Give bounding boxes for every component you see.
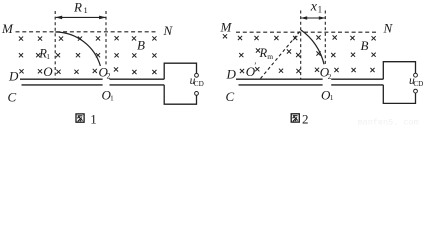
connector wire top fig1 [164, 63, 196, 79]
svg-text:1: 1 [46, 52, 50, 61]
dimension arrow R1 (fig1) [55, 16, 106, 20]
magnetic field crosses fig1 row3 [19, 67, 156, 74]
svg-text:D: D [226, 67, 237, 82]
dashed boundary line MN (fig1) [16, 31, 158, 33]
magnetic field crosses fig1 row2 [19, 53, 157, 57]
rod tip trajectory arc fig2 [301, 30, 324, 64]
connector wire top fig2 [383, 62, 415, 79]
svg-text:x: x [310, 0, 318, 15]
svg-text:R: R [259, 46, 268, 60]
svg-text:C: C [8, 90, 17, 105]
svg-text:′: ′ [254, 61, 256, 71]
magnetic field crosses fig2 row2 [239, 48, 376, 57]
connector wire bottom fig2 [383, 85, 415, 104]
dimension arrow x1 (fig2) [301, 16, 326, 19]
magnetic field crosses fig1 row1 [19, 36, 157, 41]
svg-text:O: O [43, 64, 53, 79]
terminal circle bottom fig2 [414, 89, 418, 93]
rail C fig1 (lower, with gap at rod) [22, 84, 165, 86]
svg-text:1: 1 [110, 93, 114, 102]
dashed boundary line MN (fig2) [236, 31, 378, 33]
svg-text:M: M [1, 21, 14, 36]
dashed vertical line through O2 (fig2 right) [324, 11, 326, 66]
svg-text:1: 1 [84, 5, 88, 15]
svg-text:2: 2 [107, 72, 111, 81]
dashed vertical line through O2 (fig1 right) [105, 11, 107, 66]
svg-text:R: R [73, 0, 82, 15]
caption box glyph (tu) fig1 [76, 114, 84, 122]
rail D fig1 (upper, with gap at rod) [20, 78, 164, 80]
rail C fig2 (lower, with gap at rod) [239, 84, 384, 86]
svg-text:manfen5. com: manfen5. com [358, 118, 419, 128]
svg-text:B: B [137, 38, 145, 53]
dashed vertical line at rod-tip x (fig2 left) [300, 11, 302, 80]
rail D fig2 (upper, with gap at rod) [236, 78, 383, 80]
svg-text:M: M [220, 19, 233, 34]
rod trajectory arc fig1 (quarter circle) [55, 32, 100, 66]
svg-text:1: 1 [330, 93, 334, 102]
dashed vertical line through O (fig1 left) [54, 11, 56, 79]
svg-text:1: 1 [90, 111, 97, 126]
svg-text:2: 2 [328, 72, 332, 81]
caption box glyph (tu) fig2 [291, 114, 299, 122]
svg-text:N: N [163, 23, 174, 38]
svg-text:2: 2 [302, 111, 309, 126]
magnetic field crosses fig2 row3 [240, 67, 375, 73]
terminal circle top fig1 [195, 73, 199, 77]
svg-text:C: C [226, 89, 235, 104]
rod current position dashed (fig2) [261, 30, 302, 79]
svg-text:1: 1 [318, 5, 323, 15]
svg-text:D: D [8, 69, 19, 84]
svg-text:B: B [361, 38, 369, 53]
svg-text:m: m [267, 52, 273, 61]
magnetic field crosses fig2 row1 [223, 34, 376, 40]
svg-text:CD: CD [413, 80, 423, 88]
svg-text:N: N [383, 20, 394, 35]
connector wire bottom fig1 [164, 85, 196, 104]
svg-text:CD: CD [194, 80, 204, 88]
terminal circle bottom fig1 [195, 92, 199, 96]
terminal circle top fig2 [414, 73, 418, 77]
